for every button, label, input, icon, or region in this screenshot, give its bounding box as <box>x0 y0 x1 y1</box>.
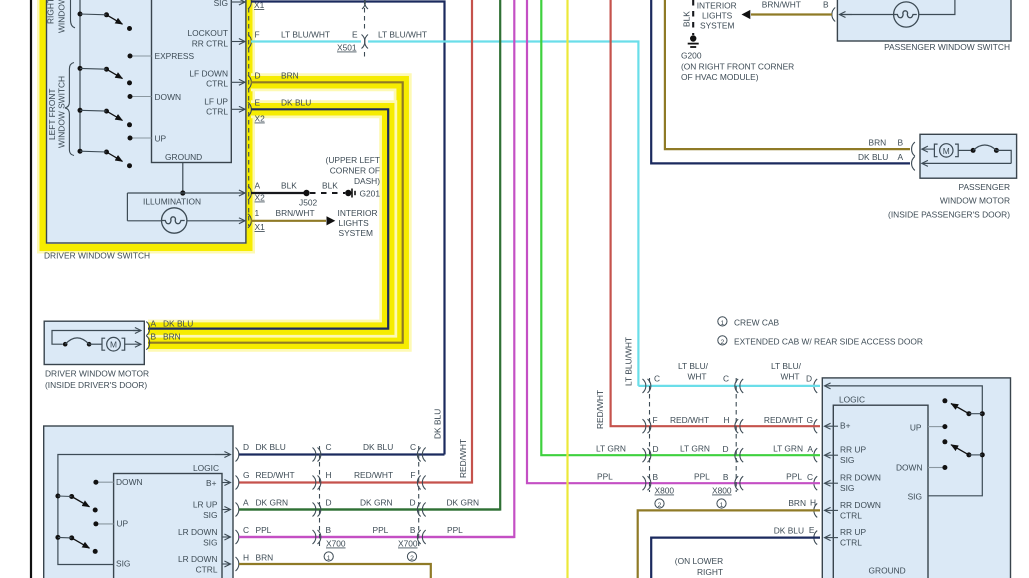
svg-text:C: C <box>807 472 813 482</box>
wire PPL LR C row <box>239 536 514 538</box>
svg-text:LT BLU/: LT BLU/ <box>771 361 802 371</box>
switch arm 4 <box>78 149 133 169</box>
svg-text:D: D <box>409 498 415 508</box>
svg-text:BRN: BRN <box>256 553 274 563</box>
svg-text:RR UP: RR UP <box>840 445 866 455</box>
LR contact stubs <box>97 482 114 524</box>
svg-text:DASH): DASH) <box>354 176 380 186</box>
svg-text:B+: B+ <box>840 421 851 431</box>
svg-text:X700: X700 <box>398 539 418 549</box>
svg-text:A: A <box>255 181 261 191</box>
svg-text:LR DOWN: LR DOWN <box>178 554 218 564</box>
svg-text:SYSTEM: SYSTEM <box>700 21 734 31</box>
splice J502 <box>303 190 309 196</box>
svg-text:LOCKOUT: LOCKOUT <box>188 28 229 38</box>
svg-text:PASSENGER WINDOW SWITCH: PASSENGER WINDOW SWITCH <box>884 42 1010 52</box>
wire RED/WHT row G <box>645 425 820 427</box>
RR block pin connectors on edge <box>814 379 817 545</box>
connector X700 no.2 <box>417 446 425 546</box>
svg-text:LEFT FRONT: LEFT FRONT <box>47 89 57 141</box>
brace left front group <box>65 63 74 156</box>
svg-text:B: B <box>723 472 729 482</box>
RR logic box <box>833 405 928 578</box>
wire DK GRN vertical to LR pin A <box>239 0 500 510</box>
svg-text:D: D <box>255 70 261 80</box>
svg-text:F: F <box>653 415 658 425</box>
svg-text:H: H <box>326 470 332 480</box>
pin X1 (SIG row) <box>248 0 251 9</box>
svg-text:LT BLU/WHT: LT BLU/WHT <box>281 30 330 40</box>
lamp wires inside passenger switch <box>841 14 894 16</box>
svg-text:RED/WHT: RED/WHT <box>764 415 803 425</box>
passenger motor block <box>920 134 1017 178</box>
svg-text:SIG: SIG <box>203 538 217 548</box>
svg-text:B+: B+ <box>206 478 217 488</box>
switch arm 3 <box>78 108 133 128</box>
wire BRN vertical to passenger motor pin B <box>665 0 910 149</box>
svg-text:PPL: PPL <box>373 525 389 535</box>
svg-text:2: 2 <box>658 502 662 509</box>
pin F connector <box>248 35 251 49</box>
svg-text:BLK: BLK <box>322 181 338 191</box>
svg-text:RR DOWN: RR DOWN <box>840 500 881 510</box>
svg-text:H: H <box>243 553 249 563</box>
svg-text:B: B <box>653 472 659 482</box>
RR pin stub arrows <box>825 426 839 537</box>
svg-text:C: C <box>723 374 729 384</box>
svg-text:B: B <box>410 525 416 535</box>
svg-text:C: C <box>243 525 249 535</box>
wire BRN pin D to driver motor <box>148 82 403 342</box>
wire DK GRN LR A row (continues right) <box>239 508 500 510</box>
svg-text:LR UP: LR UP <box>193 500 218 510</box>
svg-text:CORNER OF: CORNER OF <box>330 166 380 176</box>
wire PPL vertical to LR pin C <box>239 0 514 537</box>
wire LT BLU/WHT pin F to X501 <box>251 40 361 42</box>
LR inner right labels <box>178 478 218 575</box>
RR right labels <box>896 423 923 502</box>
wire BRN/WHT pin B to interior lights <box>751 13 832 15</box>
svg-text:D: D <box>722 444 728 454</box>
svg-text:EXTENDED CAB W/ REAR SIDE ACCE: EXTENDED CAB W/ REAR SIDE ACCESS DOOR <box>734 337 923 347</box>
wire PPL row C <box>645 482 820 484</box>
svg-text:BRN: BRN <box>869 138 887 148</box>
wire YEL vertical full height <box>566 0 568 578</box>
svg-text:RED/WHT: RED/WHT <box>354 470 393 480</box>
svg-text:DK GRN: DK GRN <box>447 498 480 508</box>
svg-text:A: A <box>151 319 157 329</box>
svg-text:1: 1 <box>721 320 725 327</box>
wire RED/WHT vertical to LR pin G <box>239 0 472 483</box>
svg-text:BRN: BRN <box>163 332 181 342</box>
svg-text:(INSIDE PASSENGER'S DOOR): (INSIDE PASSENGER'S DOOR) <box>888 210 1010 220</box>
illumination feed wire (pin A row internal) <box>127 192 245 194</box>
circled 2 <box>655 499 664 508</box>
note on lower right <box>675 556 723 577</box>
svg-text:X501: X501 <box>337 43 357 53</box>
svg-text:F: F <box>410 470 415 480</box>
passenger motor caption <box>888 182 1010 220</box>
svg-text:X800: X800 <box>712 486 732 496</box>
junction dot J <box>180 190 185 195</box>
svg-text:LF DOWN: LF DOWN <box>189 69 228 79</box>
svg-text:DK BLU: DK BLU <box>774 526 804 536</box>
svg-text:CTRL: CTRL <box>840 511 862 521</box>
svg-text:RIGHT: RIGHT <box>46 0 56 24</box>
svg-text:RED/WHT: RED/WHT <box>670 415 709 425</box>
svg-text:G200: G200 <box>681 51 702 61</box>
motor brush dots and arc <box>971 148 976 153</box>
wire BLK dashed to ground G200 <box>692 0 694 35</box>
LR pin stub arrows <box>222 483 231 565</box>
wire BRN/WHT pin 1 to interior lights <box>251 220 326 222</box>
svg-text:BRN: BRN <box>281 70 299 80</box>
highlight glow wire BRN pin D <box>148 82 403 342</box>
motor internal wire loop <box>52 331 137 345</box>
svg-text:C: C <box>410 442 416 452</box>
wire DK BLU LR D row <box>239 453 445 455</box>
LR switch arm 2 <box>55 535 97 554</box>
svg-text:PPL: PPL <box>597 472 613 482</box>
svg-text:2: 2 <box>410 555 414 562</box>
svg-text:BRN/WHT: BRN/WHT <box>762 0 801 10</box>
svg-text:PPL: PPL <box>256 525 272 535</box>
svg-text:X1: X1 <box>255 222 266 232</box>
illumination left drop <box>126 193 128 221</box>
svg-text:M: M <box>943 146 950 156</box>
svg-text:DK BLU: DK BLU <box>433 409 443 439</box>
passenger switch lamp <box>894 2 919 27</box>
svg-text:B: B <box>898 138 904 148</box>
svg-text:C: C <box>326 442 332 452</box>
svg-text:RR UP: RR UP <box>840 527 866 537</box>
wire LT BLU/WHT row D <box>638 385 820 387</box>
svg-text:DK BLU: DK BLU <box>363 442 393 452</box>
svg-text:WINDOW: WINDOW <box>57 0 67 33</box>
svg-text:CTRL: CTRL <box>196 565 218 575</box>
svg-text:LT GRN: LT GRN <box>773 444 803 454</box>
svg-text:E: E <box>352 30 358 40</box>
wire DK BLU pin E to driver motor <box>148 109 388 328</box>
svg-text:OF HVAC MODULE): OF HVAC MODULE) <box>681 72 759 82</box>
inline connector X501 <box>362 0 369 58</box>
RR switch arm 1 <box>942 398 984 416</box>
svg-text:A: A <box>243 498 249 508</box>
svg-text:J502: J502 <box>299 198 318 208</box>
svg-text:SIG: SIG <box>840 483 854 493</box>
svg-text:A: A <box>898 152 904 162</box>
switch arm 1 (right window, cut) <box>78 12 133 32</box>
motor M symbol <box>89 337 141 351</box>
svg-text:PPL: PPL <box>447 525 463 535</box>
svg-text:SYSTEM: SYSTEM <box>339 228 373 238</box>
svg-text:SIG: SIG <box>203 510 217 520</box>
svg-text:RR DOWN: RR DOWN <box>840 473 881 483</box>
svg-text:1: 1 <box>327 555 331 562</box>
wire BLK dashed to G201 <box>310 192 345 194</box>
RR switch arm 2 <box>942 439 984 457</box>
pin D connector <box>248 75 251 89</box>
LR left labels <box>116 477 143 569</box>
svg-text:DK GRN: DK GRN <box>256 498 289 508</box>
RR inner left labels <box>840 421 906 576</box>
wire LT BLU/WHT row D labels <box>678 361 802 382</box>
driver switch inner logic box <box>152 0 232 163</box>
svg-text:PPL: PPL <box>786 472 802 482</box>
svg-text:(ON LOWER: (ON LOWER <box>675 556 723 566</box>
illumination bottom wire (pin 1 row internal) <box>127 220 245 222</box>
svg-text:DK BLU: DK BLU <box>163 319 193 329</box>
wire RED/WHT vertical to X800 B+ row <box>611 0 645 426</box>
ground G201 <box>345 189 380 199</box>
svg-text:EXPRESS: EXPRESS <box>155 51 195 61</box>
svg-text:D: D <box>806 374 812 384</box>
inner box right-side labels <box>188 0 229 117</box>
svg-text:M: M <box>110 340 117 350</box>
svg-text:LF UP: LF UP <box>204 97 228 107</box>
note upper left corner of dash <box>326 155 381 186</box>
switch contact stubs <box>131 56 152 138</box>
brace right window group <box>71 0 76 28</box>
circled 2 <box>407 552 416 561</box>
pin A connector <box>248 186 251 200</box>
svg-text:E: E <box>809 525 815 535</box>
switch bus wire <box>79 0 81 152</box>
passenger motor pin connectors <box>912 142 915 156</box>
arrow to interior lights system (left) <box>742 10 751 19</box>
wire PPL vertical to X800 row <box>527 0 645 483</box>
svg-text:WHT: WHT <box>687 372 706 382</box>
svg-text:2: 2 <box>721 339 725 346</box>
svg-text:CTRL: CTRL <box>840 538 862 548</box>
svg-text:CREW CAB: CREW CAB <box>734 318 780 328</box>
svg-text:SIG: SIG <box>840 455 854 465</box>
svg-text:(ON RIGHT FRONT CORNER: (ON RIGHT FRONT CORNER <box>681 62 794 72</box>
svg-text:LT BLU/WHT: LT BLU/WHT <box>378 30 427 40</box>
pin E connector <box>248 102 251 116</box>
svg-text:PASSENGER: PASSENGER <box>958 182 1010 192</box>
svg-text:C: C <box>654 374 660 384</box>
svg-text:LOGIC: LOGIC <box>839 395 865 405</box>
motor brush dots and arc <box>63 342 68 347</box>
passenger window switch block <box>837 0 1011 41</box>
svg-text:WINDOW SWITCH: WINDOW SWITCH <box>57 76 67 148</box>
svg-text:DOWN: DOWN <box>116 477 143 487</box>
circled 1 <box>324 552 333 561</box>
svg-text:LT BLU/WHT: LT BLU/WHT <box>624 337 634 386</box>
driver motor pin connectors <box>146 322 149 336</box>
svg-text:INTERIOR: INTERIOR <box>697 1 737 11</box>
svg-text:E: E <box>255 97 261 107</box>
svg-text:G: G <box>806 415 813 425</box>
motor internal arrows <box>922 148 934 150</box>
svg-text:D: D <box>243 442 249 452</box>
svg-text:DK GRN: DK GRN <box>360 498 393 508</box>
svg-text:LIGHTS: LIGHTS <box>702 11 733 21</box>
svg-text:SIG: SIG <box>908 492 922 502</box>
svg-text:G: G <box>243 470 250 480</box>
illumination lamp <box>162 208 187 233</box>
svg-text:DK BLU: DK BLU <box>858 152 888 162</box>
svg-text:LOGIC: LOGIC <box>193 463 219 473</box>
connector X800 no.1 <box>643 378 651 492</box>
ground G200 <box>688 35 699 47</box>
svg-text:LR DOWN: LR DOWN <box>178 527 218 537</box>
svg-text:SIG: SIG <box>116 559 130 569</box>
svg-text:GROUND: GROUND <box>869 566 906 576</box>
svg-text:ILLUMINATION: ILLUMINATION <box>143 197 201 207</box>
highlight glow wire DK BLU pin E <box>148 109 388 328</box>
svg-text:X2: X2 <box>255 114 266 124</box>
arrow to interior lights system <box>327 216 336 225</box>
svg-text:A: A <box>807 444 813 454</box>
svg-text:BLK: BLK <box>682 11 692 27</box>
svg-text:RR CTRL: RR CTRL <box>192 39 229 49</box>
svg-text:H: H <box>723 415 729 425</box>
svg-text:1: 1 <box>255 208 260 218</box>
RR block body <box>822 378 1010 578</box>
wire LT BLU/WHT X501 to right, down to rear-window row <box>368 42 638 386</box>
circled 2 extended cab <box>718 336 727 345</box>
driver window switch block body <box>47 0 246 243</box>
svg-text:DRIVER WINDOW SWITCH: DRIVER WINDOW SWITCH <box>44 251 150 261</box>
page border frame <box>30 0 32 578</box>
svg-text:LT GRN: LT GRN <box>596 444 626 454</box>
circled 1 <box>717 499 726 508</box>
svg-text:BRN/WHT: BRN/WHT <box>276 208 315 218</box>
wire DK BLU vertical to passenger motor pin A <box>651 0 910 163</box>
svg-text:UP: UP <box>155 134 167 144</box>
LR block pin connectors on edge <box>236 448 239 572</box>
illumination ground drop wire <box>182 163 184 194</box>
wire LT GRN row A <box>645 454 820 456</box>
circled 1 crew cab <box>718 317 727 326</box>
svg-text:GROUND: GROUND <box>165 152 202 162</box>
svg-text:BLK: BLK <box>281 181 297 191</box>
wire LT GRN vertical to X800 row <box>541 0 645 455</box>
svg-text:DK BLU: DK BLU <box>256 442 286 452</box>
svg-text:(INSIDE DRIVER'S DOOR): (INSIDE DRIVER'S DOOR) <box>45 380 147 390</box>
highlight glow around driver window switch block <box>43 0 249 248</box>
svg-text:DOWN: DOWN <box>896 463 923 473</box>
svg-text:(UPPER LEFT: (UPPER LEFT <box>326 155 380 165</box>
svg-text:B: B <box>151 332 157 342</box>
svg-text:RED/WHT: RED/WHT <box>256 470 295 480</box>
pin 1 connector <box>248 214 251 228</box>
LR logic box <box>114 474 222 578</box>
svg-text:INTERIOR: INTERIOR <box>338 208 378 218</box>
switch arm 2 <box>78 66 133 86</box>
motor M symbol <box>934 144 970 157</box>
LR switch arm 1 <box>55 494 97 513</box>
left side contact labels <box>155 51 195 144</box>
connector X800 no.2 <box>735 378 743 492</box>
svg-text:D: D <box>326 498 332 508</box>
svg-text:DRIVER WINDOW MOTOR: DRIVER WINDOW MOTOR <box>45 369 149 379</box>
svg-text:UP: UP <box>910 423 922 433</box>
svg-text:LT GRN: LT GRN <box>680 444 710 454</box>
svg-text:WINDOW MOTOR: WINDOW MOTOR <box>940 196 1010 206</box>
LR SIG loop wire <box>58 455 226 565</box>
svg-text:PPL: PPL <box>694 472 710 482</box>
svg-text:B: B <box>326 525 332 535</box>
svg-text:DK BLU: DK BLU <box>281 97 311 107</box>
svg-text:WHT: WHT <box>780 372 799 382</box>
LR block body <box>44 426 233 578</box>
svg-text:DOWN: DOWN <box>155 92 182 102</box>
svg-text:B: B <box>823 0 829 10</box>
wire BRN row H to bottom <box>638 510 820 578</box>
wire DK BLU row E to bottom <box>651 538 820 578</box>
svg-text:UP: UP <box>117 519 129 529</box>
svg-text:X700: X700 <box>326 539 346 549</box>
svg-text:1: 1 <box>720 502 724 509</box>
svg-text:CTRL: CTRL <box>206 79 228 89</box>
connector dashed line on block edge <box>248 8 250 226</box>
svg-text:CTRL: CTRL <box>206 107 228 117</box>
wire BLK pin A to splice J502 <box>251 192 304 194</box>
svg-text:SIG: SIG <box>214 0 228 8</box>
svg-text:X800: X800 <box>655 486 675 496</box>
connector X700 no.1 <box>313 446 321 546</box>
svg-text:BRN: BRN <box>788 498 806 508</box>
svg-text:F: F <box>255 30 260 40</box>
passenger switch pin B connector <box>832 8 835 22</box>
pin stub arrows inner box to block edge <box>231 2 245 109</box>
svg-text:LIGHTS: LIGHTS <box>339 218 370 228</box>
wire DK BLU from X1 top <box>251 2 445 455</box>
RR SIG loop wire <box>828 386 982 496</box>
driver window motor block <box>44 321 144 364</box>
svg-text:RIGHT: RIGHT <box>697 567 723 577</box>
svg-text:H: H <box>810 498 816 508</box>
RR contact stubs <box>928 427 944 468</box>
svg-text:LT BLU/: LT BLU/ <box>678 361 709 371</box>
wire BRN LR H row to bottom <box>239 564 431 578</box>
svg-text:RED/WHT: RED/WHT <box>458 439 468 478</box>
svg-text:G201: G201 <box>360 189 381 199</box>
svg-text:RED/WHT: RED/WHT <box>595 390 605 429</box>
svg-text:D: D <box>653 444 659 454</box>
